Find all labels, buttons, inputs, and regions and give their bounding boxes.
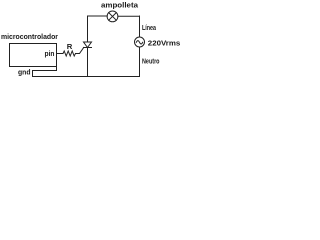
wire cathode vertical <box>87 48 89 77</box>
svg-text:gnd: gnd <box>18 68 31 77</box>
wire line drop right <box>139 16 141 37</box>
wire gate lead <box>76 48 84 54</box>
lamp ampolleta <box>107 11 118 22</box>
microcontroller U1 box <box>10 44 57 67</box>
wire bottom rail <box>33 76 140 78</box>
wire neutral vertical <box>139 47 141 77</box>
resistor R <box>63 51 76 56</box>
svg-text:ampolleta: ampolleta <box>101 0 139 9</box>
wire top rail <box>88 15 140 17</box>
svg-text:pin: pin <box>45 49 55 58</box>
svg-text:microcontrolador: microcontrolador <box>1 32 58 41</box>
wire pin stub <box>57 53 64 55</box>
wire anode vertical <box>87 16 89 42</box>
wire gnd hook <box>33 67 57 77</box>
thyristor cathode bar <box>84 47 92 49</box>
svg-text:R: R <box>67 42 73 51</box>
svg-text:Neutro: Neutro <box>142 56 160 65</box>
svg-text:Línea: Línea <box>142 23 156 32</box>
thyristor SCR triangle <box>84 42 92 48</box>
AC source V1 220Vrms <box>135 37 145 47</box>
svg-text:220Vrms: 220Vrms <box>148 39 181 48</box>
